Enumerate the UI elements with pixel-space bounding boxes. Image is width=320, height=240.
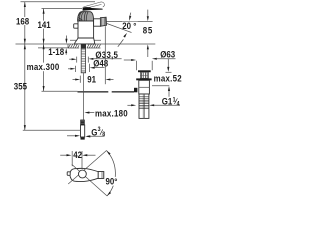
dimension max.52 (152, 59, 172, 97)
label 20deg (122, 20, 138, 31)
svg-text:42: 42 (73, 149, 82, 160)
svg-text:85: 85 (143, 25, 153, 36)
wire deck bottom extension for 1-18 (38, 47, 68, 49)
svg-text:Ø63: Ø63 (160, 49, 175, 60)
waste plug stem (140, 72, 148, 78)
dimension Oslash33,5 (69, 57, 121, 63)
faucet spout neck (94, 19, 101, 26)
faucet raised lever phantom (84, 2, 105, 8)
faucet pop-up knob (74, 24, 78, 28)
svg-text:355: 355 (14, 81, 27, 92)
svg-text:141: 141 (38, 19, 51, 30)
faucet body column (78, 21, 94, 38)
faucet aerator striped (100, 17, 106, 26)
swivel fan line lower (72, 164, 107, 196)
dimension line 141 and max.300 (43, 9, 45, 92)
wire escutcheon lower edge line (70, 39, 101, 41)
plan view pop-up knob (67, 172, 70, 176)
dimension 85 (147, 10, 149, 57)
svg-text:1-18: 1-18 (48, 46, 64, 57)
swivel fan line upper (68, 151, 106, 185)
wire aerator axis horizontal (107, 20, 153, 22)
dimension Oslash48 (68, 64, 105, 72)
dimension 1-18 arrows (65, 36, 67, 55)
dimension G1 1/4 (127, 104, 180, 106)
svg-text:max.52: max.52 (154, 73, 182, 84)
dimension 91 (73, 26, 114, 84)
wire deck extension line left (16, 43, 69, 45)
plan view aerator (98, 172, 104, 179)
svg-text:1: 1 (173, 97, 177, 103)
faucet lever handle (83, 7, 103, 11)
dimension Oslash63 (124, 58, 176, 70)
hose fitting end cap (81, 137, 85, 139)
swivel arc 90deg (107, 151, 116, 197)
svg-text:max.300: max.300 (27, 61, 60, 72)
label max.180 with leaders (84, 108, 128, 119)
dimension line 168 and 355 (24, 2, 26, 131)
svg-text:3: 3 (98, 127, 101, 133)
deck hatched section left (68, 44, 79, 48)
wire aerator axis tilted 20deg (107, 23, 132, 32)
label G1 1/4 (162, 96, 180, 108)
hose fitting body (81, 125, 85, 137)
dimension 42 (60, 151, 95, 170)
label 90deg (105, 176, 122, 187)
svg-text:Ø48: Ø48 (93, 58, 108, 69)
svg-text:G1: G1 (162, 96, 173, 107)
plan view faucet body (70, 168, 98, 181)
label max.52 (153, 73, 182, 84)
label 168 (16, 16, 30, 27)
svg-text:max.180: max.180 (95, 108, 128, 119)
label max.300 (26, 61, 60, 72)
label 355 (14, 81, 28, 92)
wire top extension line (overall height ref) (21, 1, 96, 3)
label 141 (37, 19, 51, 30)
plan view cartridge circle (79, 170, 87, 178)
dimension 20deg arrows (118, 13, 132, 47)
hose fitting nut (80, 120, 84, 125)
wire lever height extension line (42, 8, 83, 10)
svg-text:168: 168 (16, 16, 29, 27)
supply hose line (82, 73, 84, 120)
pop-up rod (42, 90, 135, 93)
wire deck top line toward waste (101, 43, 156, 45)
svg-text:91: 91 (87, 74, 96, 85)
waste plug cap (138, 70, 151, 72)
waste body (139, 80, 150, 94)
waste flange (136, 78, 151, 80)
wire hose end reference line (23, 129, 81, 131)
faucet cartridge dome (78, 12, 94, 21)
label 91 (87, 74, 96, 85)
svg-text:90°: 90° (106, 176, 118, 187)
faucet base escutcheon (75, 38, 95, 44)
svg-text:4: 4 (177, 101, 181, 107)
svg-text:20 °: 20 ° (122, 20, 137, 31)
waste rod connector knob (134, 88, 137, 93)
threaded shank (81, 44, 86, 73)
label 42 (73, 149, 83, 160)
label G3/8 with arrows (67, 127, 106, 138)
waste tailpiece threaded (139, 94, 149, 118)
label 1-18 (48, 46, 64, 57)
svg-text:8: 8 (102, 131, 106, 137)
deck hatched section right (87, 44, 101, 48)
